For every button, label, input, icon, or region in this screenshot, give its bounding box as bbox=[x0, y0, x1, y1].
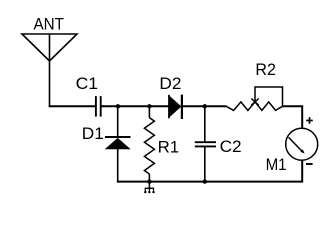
resistor R1 branch wires bbox=[148, 106, 150, 117]
resistor R1 bbox=[144, 118, 154, 174]
capacitor C1 bbox=[96, 96, 101, 117]
capacitor C2 bbox=[195, 142, 216, 146]
svg-text:D1: D1 bbox=[82, 124, 104, 143]
node junction R1 bottom bbox=[147, 179, 151, 183]
svg-text:R1: R1 bbox=[158, 137, 180, 156]
svg-text:C1: C1 bbox=[76, 74, 99, 93]
wire R2 to meter corner bbox=[283, 106, 303, 128]
diode D1 branch wires bbox=[117, 106, 119, 137]
label - minus bbox=[306, 163, 313, 165]
diode D2 bbox=[169, 95, 182, 119]
ground bbox=[145, 182, 154, 192]
diode D1 bbox=[105, 137, 131, 149]
svg-text:C2: C2 bbox=[220, 137, 242, 156]
svg-text:R2: R2 bbox=[255, 60, 276, 79]
label + plus bbox=[306, 117, 313, 124]
node junction R1 top bbox=[147, 104, 151, 108]
wire C1 to D2 bbox=[102, 105, 170, 107]
wire D2 to R2 bbox=[183, 105, 227, 107]
svg-text:M1: M1 bbox=[266, 155, 287, 174]
resistor R2 (rheostat) bbox=[226, 102, 282, 111]
M1 needle arrowhead bbox=[300, 149, 304, 153]
R2 wiper arrow bbox=[251, 87, 282, 106]
wire bottom rail bbox=[117, 181, 303, 183]
svg-text:D2: D2 bbox=[159, 74, 181, 93]
svg-text:ANT: ANT bbox=[34, 15, 65, 34]
antenna ANT symbol bbox=[22, 34, 77, 61]
wire antenna vertical lead bbox=[49, 34, 51, 107]
wire meter bottom lead bbox=[301, 160, 303, 182]
meter M1 bbox=[286, 128, 318, 160]
M1 needle bbox=[289, 137, 303, 151]
node junction D1 top bbox=[116, 104, 120, 108]
node junction C2 top bbox=[203, 104, 207, 108]
capacitor C2 branch wires bbox=[204, 106, 206, 142]
wire antenna to C1 bbox=[49, 105, 95, 107]
node junction C2 bottom bbox=[203, 179, 207, 183]
